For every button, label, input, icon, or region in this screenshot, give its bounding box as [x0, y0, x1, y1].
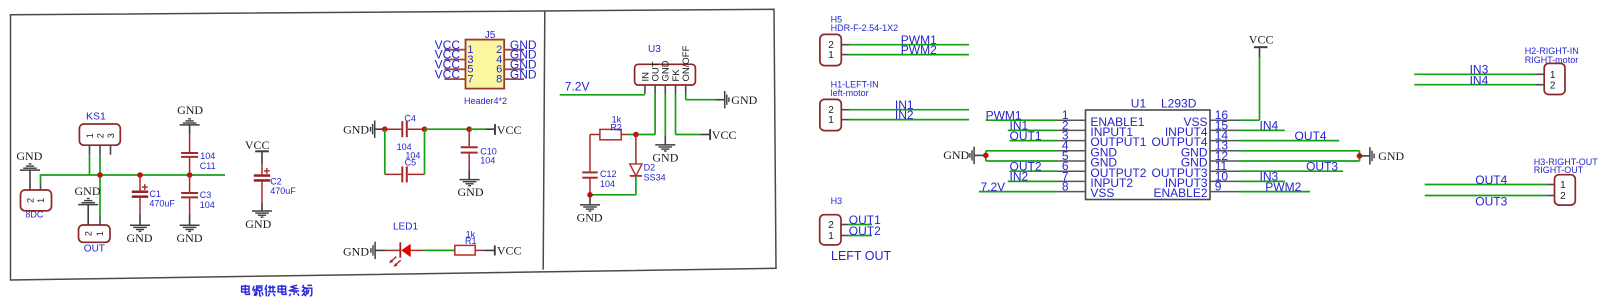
- svg-text:VCC: VCC: [497, 123, 522, 137]
- wire OUT4 pin14: [1239, 140, 1340, 142]
- svg-text:GND: GND: [177, 231, 203, 245]
- svg-text:GND: GND: [75, 184, 101, 198]
- wire IN4 pin15: [1239, 129, 1285, 131]
- svg-text:H3: H3: [831, 196, 843, 206]
- svg-text:R2: R2: [610, 123, 622, 133]
- svg-text:470uF: 470uF: [149, 198, 175, 208]
- svg-text:104: 104: [600, 179, 615, 189]
- wire OUT1: [849, 224, 872, 226]
- junction: [587, 192, 593, 198]
- svg-text:GND: GND: [577, 211, 603, 225]
- wire bus: [40, 174, 225, 176]
- svg-text:GND: GND: [1378, 149, 1404, 163]
- svg-text:7: 7: [467, 73, 473, 85]
- svg-text:HDR-F-2.54-1X2: HDR-F-2.54-1X2: [831, 23, 899, 33]
- wire IN3 pin10: [1239, 180, 1285, 182]
- svg-text:OUT3: OUT3: [1306, 160, 1338, 174]
- wire PWM1: [849, 44, 969, 46]
- svg-text:8: 8: [1062, 180, 1069, 194]
- svg-text:470uF: 470uF: [270, 186, 296, 196]
- connector 8DC: [21, 183, 52, 220]
- junction: [187, 172, 193, 178]
- ground left of U1: [943, 147, 986, 164]
- svg-text:VCC: VCC: [1249, 33, 1274, 47]
- connector H1: [820, 79, 879, 130]
- svg-text:2: 2: [25, 198, 35, 203]
- svg-text:PWM2: PWM2: [901, 43, 937, 57]
- capacitor C10: [461, 129, 497, 179]
- wire: [685, 94, 687, 100]
- svg-text:IN2: IN2: [895, 108, 914, 122]
- connector KS1: [79, 111, 120, 155]
- wire PWM2 pin9: [1239, 191, 1311, 193]
- svg-text:R1: R1: [465, 236, 477, 246]
- junction: [1357, 153, 1363, 159]
- svg-text:GND: GND: [245, 217, 271, 231]
- ground: [343, 121, 385, 138]
- svg-text:U3: U3: [648, 44, 661, 55]
- ground: [127, 225, 153, 245]
- svg-text:8: 8: [496, 73, 502, 85]
- wire: [99, 155, 101, 217]
- svg-text:OUT4: OUT4: [1475, 173, 1507, 187]
- svg-text:VCC: VCC: [497, 244, 522, 258]
- svg-text:GND: GND: [343, 244, 369, 258]
- svg-text:C2: C2: [270, 177, 282, 187]
- svg-text:VCC: VCC: [435, 67, 461, 81]
- wire: [560, 94, 645, 96]
- capacitor C3: [181, 175, 215, 225]
- regulator U3: [635, 44, 696, 94]
- svg-text:GND: GND: [16, 149, 42, 163]
- wire IN1 to pin2: [1008, 129, 1057, 131]
- wire: [40, 175, 42, 183]
- svg-text:KS1: KS1: [86, 111, 106, 123]
- capacitor C4: [385, 114, 425, 153]
- wire: [424, 129, 426, 174]
- svg-text:C3: C3: [200, 190, 212, 200]
- svg-text:OUT4: OUT4: [1295, 129, 1327, 143]
- wire OUT2 to pin6: [1010, 170, 1058, 172]
- ground: [16, 149, 42, 190]
- svg-text:1: 1: [36, 198, 46, 203]
- wire: [654, 94, 656, 135]
- svg-text:C12: C12: [600, 169, 617, 179]
- svg-text:left-motor: left-motor: [831, 88, 869, 98]
- svg-text:1: 1: [828, 231, 834, 242]
- svg-text:3: 3: [106, 133, 116, 138]
- svg-text:2: 2: [1550, 80, 1556, 91]
- wire OUT3 pin11: [1239, 170, 1344, 172]
- LED LED1: [386, 222, 424, 267]
- svg-text:IN2: IN2: [1010, 170, 1029, 184]
- svg-text:IN4: IN4: [1260, 119, 1279, 133]
- wire IN2: [849, 119, 969, 121]
- svg-text:ENABLE2: ENABLE2: [1153, 186, 1207, 200]
- wire pin16 to VCC: [1239, 119, 1260, 121]
- ground: [577, 195, 603, 225]
- svg-text:U1: U1: [1131, 97, 1147, 111]
- wire: [590, 194, 636, 196]
- ground: [343, 242, 386, 259]
- wire OUT1 to pin3: [1010, 140, 1058, 142]
- ground: [177, 103, 203, 134]
- header J5: [435, 30, 537, 106]
- power VCC: [1249, 33, 1274, 48]
- svg-text:2: 2: [1560, 191, 1566, 202]
- svg-text:1: 1: [1550, 70, 1556, 81]
- svg-text:104: 104: [480, 156, 495, 166]
- wire: [664, 94, 666, 136]
- svg-text:1: 1: [85, 133, 95, 138]
- wire: [89, 155, 91, 175]
- svg-text:OUT2: OUT2: [849, 224, 881, 238]
- wire OUT2: [849, 235, 872, 237]
- svg-text:IN4: IN4: [1470, 73, 1489, 87]
- junction: [633, 132, 639, 138]
- ground: [245, 211, 272, 231]
- junction: [466, 126, 472, 132]
- svg-text:PWM2: PWM2: [1265, 180, 1301, 194]
- svg-text:104: 104: [200, 151, 215, 161]
- svg-text:OUT3: OUT3: [1475, 194, 1507, 208]
- wire: [675, 94, 677, 135]
- resistor R1: [455, 229, 494, 255]
- ground right of U1: [1360, 147, 1405, 164]
- capacitor C5: [385, 150, 425, 182]
- junction: [137, 172, 143, 178]
- ground: [458, 180, 484, 200]
- power VCC: [495, 244, 522, 258]
- connector H5: [820, 14, 898, 65]
- junction: [983, 153, 989, 159]
- ground: [177, 225, 203, 245]
- wire 7.2V to pin8: [979, 191, 1057, 193]
- svg-text:VSS: VSS: [1090, 186, 1114, 200]
- connector H3-RIGHT-OUT: [1534, 157, 1599, 205]
- svg-text:GND: GND: [127, 231, 153, 245]
- ground: [725, 91, 758, 108]
- svg-text:LED1: LED1: [393, 222, 418, 233]
- capacitor C12: [582, 135, 616, 195]
- svg-text:8DC: 8DC: [25, 209, 44, 219]
- power VCC: [710, 128, 736, 142]
- resistor R2: [590, 115, 628, 140]
- svg-text:2: 2: [84, 231, 94, 236]
- svg-text:VCC: VCC: [245, 138, 270, 152]
- ground: [652, 136, 678, 165]
- svg-text:GND: GND: [510, 67, 537, 81]
- wire IN4: [1414, 84, 1535, 86]
- svg-text:GND: GND: [343, 123, 369, 137]
- svg-text:C5: C5: [405, 158, 417, 168]
- svg-text:1: 1: [828, 50, 834, 61]
- capacitor C2: [254, 164, 296, 211]
- wire: [424, 249, 454, 251]
- wire OUT4: [1425, 184, 1547, 186]
- wire IN3: [1414, 73, 1535, 75]
- wire OUT3: [1425, 195, 1547, 197]
- svg-text:2: 2: [95, 133, 105, 138]
- svg-text:GND: GND: [177, 103, 203, 117]
- wire GND pins 4,5: [985, 151, 987, 161]
- ground: [75, 184, 101, 225]
- junction: [97, 172, 103, 178]
- IC U1 L293D: [1057, 97, 1239, 201]
- svg-text:VCC: VCC: [712, 128, 737, 142]
- svg-text:1: 1: [828, 115, 834, 126]
- svg-text:7.2V: 7.2V: [565, 79, 590, 93]
- svg-text:104: 104: [200, 200, 215, 210]
- svg-text:ON/OFF: ON/OFF: [681, 45, 692, 81]
- wire GND pins 13,12: [1239, 150, 1360, 152]
- svg-text:LEFT OUT: LEFT OUT: [831, 249, 892, 263]
- junction: [382, 126, 388, 132]
- svg-text:SS34: SS34: [644, 172, 666, 182]
- svg-text:1: 1: [95, 231, 105, 236]
- svg-text:C1: C1: [149, 189, 161, 199]
- connector H3: [820, 196, 849, 245]
- svg-text:Header4*2: Header4*2: [464, 96, 507, 106]
- svg-text:2: 2: [828, 220, 834, 231]
- svg-text:L293D: L293D: [1161, 97, 1197, 111]
- svg-text:GND: GND: [731, 93, 757, 107]
- wire PWM1 to pin1: [986, 119, 1057, 121]
- power VCC: [245, 138, 270, 165]
- wire: [384, 129, 386, 174]
- connector H2-RIGHT-IN: [1525, 46, 1579, 95]
- svg-text:9: 9: [1215, 180, 1222, 194]
- svg-text:RIGHT-OUT: RIGHT-OUT: [1534, 165, 1584, 175]
- capacitor C1: [132, 175, 176, 225]
- svg-text:C11: C11: [200, 161, 216, 171]
- connector OUT: [79, 225, 111, 255]
- title 电源供电系统: [242, 285, 312, 297]
- svg-text:GND: GND: [652, 151, 678, 165]
- wire PWM2: [849, 54, 969, 56]
- svg-text:C4: C4: [404, 114, 416, 124]
- wire IN2 to pin7: [1008, 180, 1057, 182]
- wire: [469, 128, 485, 130]
- svg-text:GND: GND: [943, 148, 969, 162]
- wire: [425, 128, 470, 130]
- capacitor C11: [181, 134, 216, 175]
- svg-text:1: 1: [1560, 180, 1566, 191]
- svg-text:7.2V: 7.2V: [981, 180, 1006, 194]
- svg-text:GND: GND: [458, 185, 484, 199]
- wire IN1: [849, 109, 969, 111]
- svg-text:OUT: OUT: [84, 244, 105, 255]
- junction: [422, 126, 428, 132]
- diode D2: [630, 135, 666, 195]
- power VCC: [495, 123, 521, 137]
- svg-text:OUT1: OUT1: [1010, 129, 1042, 143]
